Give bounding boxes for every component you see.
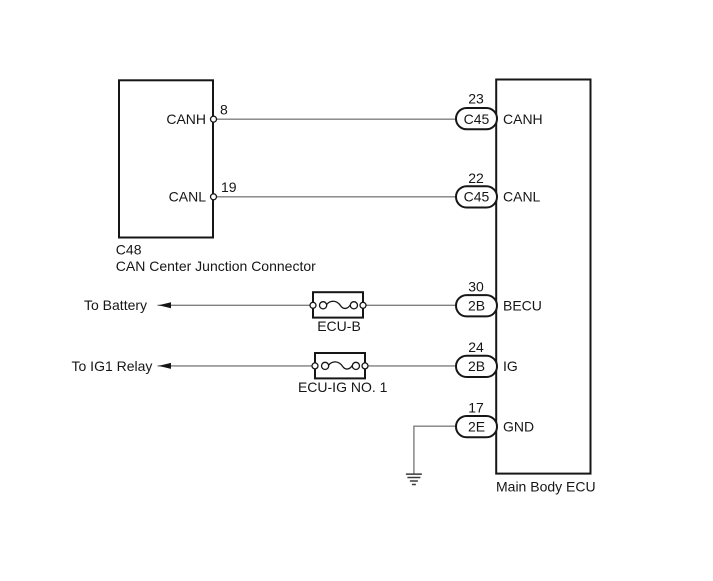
connector C48 box xyxy=(119,80,213,237)
fuse ECU-B xyxy=(310,292,366,317)
connector 2E (GND) xyxy=(456,416,497,437)
Main Body ECU box xyxy=(496,80,590,474)
svg-text:CANH: CANH xyxy=(166,111,206,127)
svg-text:To Battery: To Battery xyxy=(84,297,147,313)
svg-text:CANL: CANL xyxy=(503,189,541,205)
wire fuse ECU-B to connector 2B pin 30 xyxy=(363,304,457,306)
svg-text:C48: C48 xyxy=(116,242,142,258)
fuse ECU-IG NO. 1 xyxy=(312,353,368,378)
connector 2B (BECU) xyxy=(456,295,497,316)
svg-text:BECU: BECU xyxy=(503,297,542,313)
wire To Battery branch (left of fuse ECU-B) xyxy=(158,304,314,306)
ground symbol xyxy=(406,474,422,484)
arrow to battery xyxy=(159,302,171,308)
wire To IG1 Relay branch (left of fuse ECU-IG NO. 1) xyxy=(158,365,316,367)
connector 2B (IG) xyxy=(456,356,497,377)
wire CANH (pin 8 to C45 pin 23) xyxy=(214,118,457,120)
svg-text:2B: 2B xyxy=(468,297,485,313)
svg-text:2B: 2B xyxy=(468,358,485,374)
svg-text:CANH: CANH xyxy=(503,111,543,127)
svg-text:2E: 2E xyxy=(468,418,485,434)
connector C45 (CANH) xyxy=(456,108,497,129)
svg-text:C45: C45 xyxy=(464,189,490,205)
wire fuse ECU-IG NO. 1 to connector 2B pin 24 xyxy=(365,365,457,367)
pin terminal 8 xyxy=(211,116,217,122)
wire CANL (pin 19 to C45 pin 22) xyxy=(214,196,457,198)
wire GND horizontal (2E pin 17 to ground drop) xyxy=(414,425,457,427)
svg-text:17: 17 xyxy=(468,399,484,415)
svg-text:ECU-IG NO. 1: ECU-IG NO. 1 xyxy=(298,379,388,395)
svg-text:CAN Center Junction Connector: CAN Center Junction Connector xyxy=(116,258,316,274)
svg-text:24: 24 xyxy=(468,339,484,355)
svg-text:Main Body ECU: Main Body ECU xyxy=(496,479,596,495)
svg-text:30: 30 xyxy=(468,278,484,294)
svg-text:C45: C45 xyxy=(464,111,490,127)
svg-text:8: 8 xyxy=(220,101,228,117)
pin terminal 19 xyxy=(211,194,217,200)
svg-text:IG: IG xyxy=(503,358,518,374)
svg-text:22: 22 xyxy=(468,170,484,186)
arrow to IG1 relay xyxy=(159,363,171,369)
svg-text:ECU-B: ECU-B xyxy=(317,318,361,334)
svg-text:23: 23 xyxy=(468,91,484,107)
svg-text:19: 19 xyxy=(221,179,237,195)
svg-text:GND: GND xyxy=(503,418,534,434)
svg-text:CANL: CANL xyxy=(169,189,207,205)
svg-text:To IG1 Relay: To IG1 Relay xyxy=(72,358,153,374)
connector C45 (CANL) xyxy=(456,186,497,207)
wire GND vertical drop xyxy=(413,426,415,474)
